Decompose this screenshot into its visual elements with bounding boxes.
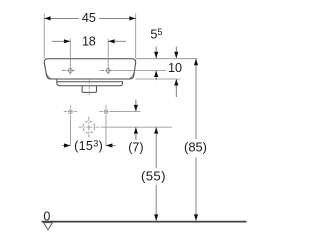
svg-text:0: 0 [43,209,50,223]
drain extension line right [101,126,173,128]
5^5 lower arrow (up) [155,71,157,81]
rim extension line to the right [136,58,197,60]
tap hole symbol left [62,69,79,73]
arrow 45 right [129,16,135,20]
drain fitting rectangle [82,86,97,93]
(15^3) arrows [62,145,70,147]
fixing extension line right [111,111,141,113]
svg-text:18: 18 [82,35,96,49]
tap hole extension line left [69,39,71,75]
inner bowl hint left [45,66,51,78]
inner bowl hint right [129,66,135,78]
fixing hole extension line left vertical [69,119,71,146]
washbasin body outline [44,59,136,79]
dimension 45: extension line left [43,13,45,58]
5^5 upper arrow (down) [155,47,157,59]
(7) upper arrow (down) [135,100,137,112]
(55) dimension line [155,127,157,168]
drain outlet symbol (dashed circle with cross) [78,117,99,138]
svg-text:10: 10 [168,61,182,75]
svg-text:(7): (7) [128,141,143,155]
tap centerline extension right [114,70,167,72]
(85) dimension line [195,59,197,139]
fixing hole symbol right [99,105,112,118]
svg-text:(153): (153) [74,139,103,153]
arrow 45 left [44,16,50,20]
svg-text:(85): (85) [184,139,207,154]
dimension 45: extension line right [135,13,137,58]
fixing hole symbol left [64,105,77,118]
dimension 45 line [44,17,79,19]
drain rect dashed centerline [88,80,90,96]
body bottom extension right [136,78,181,80]
tap hole extension line right [107,39,109,75]
datum triangle [44,223,53,230]
fixing hole extension line right vertical [105,119,107,146]
tap hole symbol right [100,69,117,73]
floor line [42,221,247,223]
skirt (lower tier) [57,79,123,86]
svg-text:(55): (55) [141,168,166,183]
svg-text:45: 45 [82,11,96,25]
dimension 18 arrows [52,40,71,42]
dimension 10 lower arrow (up) [175,79,177,97]
(7) lower arrow (up) [135,127,137,139]
dimension 10 upper arrow (down) [175,47,177,59]
